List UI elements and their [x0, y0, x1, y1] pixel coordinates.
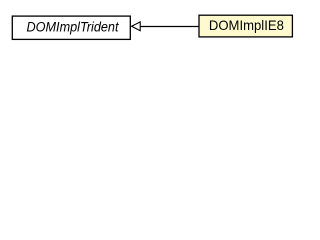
class DOMImplTrident (abstract) box [12, 16, 130, 39]
background [0, 0, 309, 59]
inheritance arrowhead (hollow triangle) [132, 22, 141, 31]
class DOMImplIE8 box (highlighted) [199, 15, 292, 37]
svg-text:DOMImplIE8: DOMImplIE8 [209, 17, 284, 33]
wire: inheritance edge line [140, 26, 199, 28]
svg-text:DOMImplTrident: DOMImplTrident [27, 19, 120, 35]
